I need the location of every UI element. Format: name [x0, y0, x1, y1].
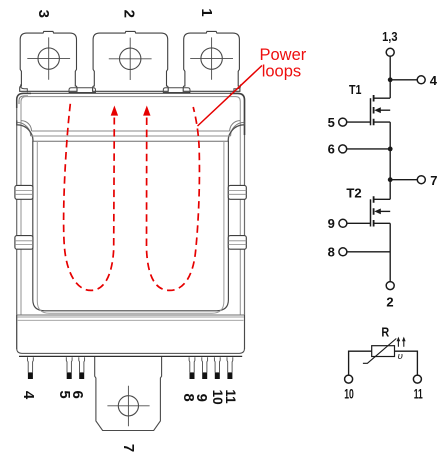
svg-text:2: 2	[386, 295, 393, 310]
svg-text:loops: loops	[262, 62, 301, 80]
T2 channel ticks	[373, 196, 375, 226]
thermistor diagonal arrow	[363, 339, 396, 364]
T2 drain stub	[374, 198, 391, 200]
terminal 1,3	[386, 48, 394, 56]
wire pin 8 to rail	[347, 251, 391, 253]
terminal 2	[386, 282, 394, 290]
T2 body stub	[380, 210, 390, 212]
terminal tab 1 body	[183, 31, 240, 91]
wire pin 6 to rail	[346, 148, 390, 150]
terminal tab 3 crosshair	[27, 37, 70, 79]
junction node 4	[388, 77, 393, 82]
terminal 8	[339, 248, 347, 256]
housing top-right corner emphasis	[230, 93, 245, 135]
mounting tab 7 body	[95, 356, 162, 430]
lid band corner arcs left	[17, 121, 32, 136]
terminal 5	[339, 118, 347, 126]
pedestal between tabs 3 and 2	[69, 88, 96, 93]
pin 8 body	[189, 357, 195, 372]
svg-text:2: 2	[120, 10, 137, 18]
terminal 11	[413, 375, 421, 383]
right ridge lower face lines	[228, 241, 246, 245]
svg-text:8: 8	[328, 244, 335, 259]
inner wall light	[37, 141, 224, 313]
terminal 10	[345, 375, 353, 383]
svg-text:R: R	[381, 325, 389, 340]
housing top-left corner emphasis	[17, 93, 31, 108]
T1 body arrow	[374, 107, 381, 113]
T2 body arrow	[374, 209, 381, 215]
pedestal between tabs 2 and 1	[163, 88, 190, 93]
lid band line upper	[32, 130, 230, 132]
housing outer outline	[17, 93, 245, 349]
terminal 9	[339, 219, 347, 227]
pin 10 body	[214, 357, 220, 372]
T2 source stub	[374, 222, 391, 224]
baseplate bottom line	[19, 355, 242, 357]
svg-text:3: 3	[35, 10, 52, 18]
svg-text:1,3: 1,3	[382, 29, 397, 44]
svg-text:5: 5	[328, 115, 335, 130]
T1 body stub	[380, 109, 390, 111]
pin 9 body	[202, 357, 208, 372]
inner wall left dark	[33, 141, 229, 311]
left ridge lower face lines	[15, 241, 33, 245]
flange top inner line	[18, 319, 244, 321]
wire thermistor right	[395, 351, 418, 375]
T1 channel ticks	[373, 95, 375, 125]
wire to pin 7	[390, 179, 417, 181]
power loop 1 dashed path	[64, 104, 115, 291]
pin 11 tip	[227, 372, 232, 379]
pin 11 body	[227, 357, 233, 372]
terminal tab 2 body	[93, 31, 169, 91]
svg-text:7: 7	[120, 444, 137, 452]
wire pin 9 to T2 gate	[347, 222, 371, 224]
T1 source stub	[374, 121, 391, 123]
T1 source rail down	[389, 122, 391, 199]
svg-text:11: 11	[223, 389, 238, 404]
power loop 1 arrowhead	[111, 106, 118, 116]
tab 1 outer-right step	[234, 84, 241, 92]
thermistor temperature arrows	[398, 341, 403, 347]
mounting tab 7 hole	[118, 396, 138, 416]
svg-text:10: 10	[344, 386, 354, 401]
svg-text:11: 11	[414, 386, 423, 401]
T1 drain stub	[374, 97, 391, 99]
terminal 4	[417, 76, 425, 84]
wire to pin 4	[390, 79, 417, 81]
power loops leader line	[198, 66, 263, 127]
svg-text:4: 4	[20, 391, 37, 400]
svg-text:6: 6	[69, 391, 86, 399]
wire thermistor left	[349, 351, 372, 375]
svg-text:υ: υ	[398, 351, 403, 362]
pin 5 tip	[67, 372, 72, 379]
thermistor R body	[372, 346, 395, 357]
left ridge lower	[15, 236, 33, 250]
junction node 6	[388, 147, 393, 152]
pin 4 tip	[28, 372, 33, 379]
terminal tab 3 body	[20, 31, 77, 91]
body bottom shoulder line 2	[17, 316, 244, 318]
terminal tab 1 crosshair	[190, 37, 233, 79]
flange outline	[17, 315, 245, 353]
pin 6 tip	[79, 372, 84, 379]
pin 4 body	[28, 357, 34, 372]
terminal tab 3 hole	[38, 48, 59, 69]
terminal 7	[417, 176, 425, 184]
right ridge upper face lines	[228, 191, 246, 195]
pin 10 tip	[215, 372, 220, 379]
svg-text:T1: T1	[349, 82, 362, 97]
pin 6 body	[79, 357, 85, 372]
svg-text:4: 4	[430, 73, 438, 88]
terminal tab 1 hole	[201, 48, 222, 69]
pin 5 body	[66, 357, 72, 372]
T1 gate line	[370, 98, 372, 125]
pin 8 tip	[190, 372, 195, 379]
svg-text:1: 1	[198, 8, 215, 16]
svg-text:9: 9	[193, 394, 210, 402]
right ridge upper	[228, 185, 246, 199]
power loop 2 arrowhead	[143, 106, 150, 116]
right ridge lower	[228, 236, 246, 250]
left ridge upper face lines	[15, 191, 33, 195]
housing inner edge line	[21, 97, 240, 315]
tab 3 outer-left step	[21, 84, 28, 92]
lid band line lower	[33, 140, 228, 142]
body bottom shoulder line	[17, 314, 244, 316]
pedestal between tabs 2 and 1 base shadow	[163, 92, 190, 94]
svg-text:7: 7	[430, 173, 437, 188]
junction node 7	[388, 177, 393, 182]
lid band corner arc right outer	[228, 120, 244, 141]
left ridge upper	[15, 185, 33, 199]
housing top-left corner inner bevel	[19, 96, 28, 104]
svg-text:6: 6	[328, 142, 335, 157]
wire 1,3 to drain rail	[389, 56, 391, 98]
svg-text:9: 9	[328, 216, 335, 231]
mounting tab 7 crosshair	[107, 386, 149, 426]
lid band corner arcs right	[230, 121, 245, 136]
lid band line middle	[31, 135, 231, 137]
T2 gate line	[370, 199, 372, 226]
svg-text:10: 10	[210, 390, 225, 405]
power loop 2 dashed path	[147, 107, 200, 290]
terminal 6	[339, 145, 347, 153]
pin 9 tip	[202, 372, 207, 379]
lid band corner arc left outer	[17, 120, 33, 141]
wire pin 5 to T1 gate	[347, 121, 371, 123]
svg-text:T2: T2	[346, 185, 361, 200]
terminal tab 2 hole	[120, 48, 141, 69]
T2 source rail down	[389, 223, 391, 281]
terminal tab 2 crosshair	[109, 38, 152, 80]
pedestal between tabs 3 and 2 base shadow	[69, 92, 96, 94]
